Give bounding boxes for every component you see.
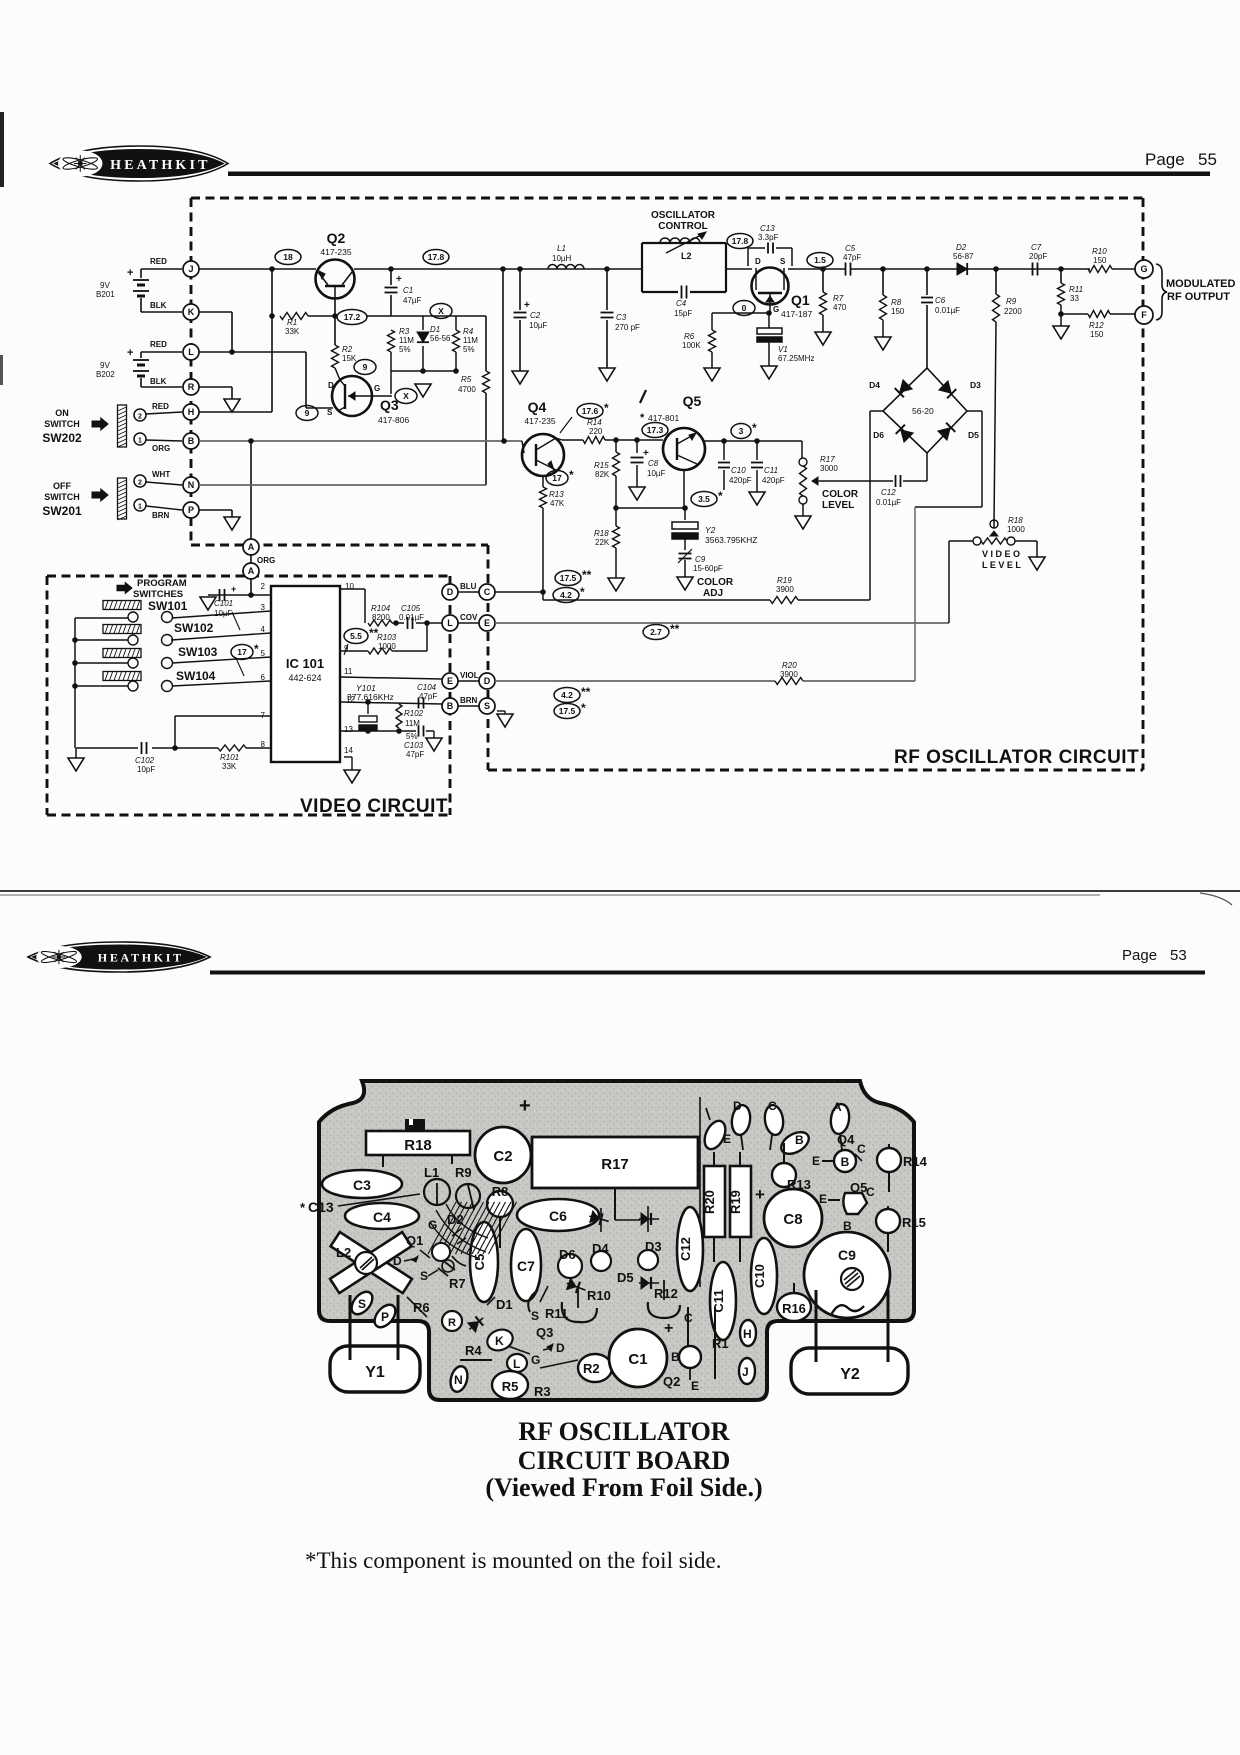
svg-text:+: + — [524, 300, 530, 311]
svg-text:11M: 11M — [463, 336, 478, 345]
svg-text:+: + — [755, 1185, 765, 1204]
svg-text:R104: R104 — [371, 604, 391, 613]
svg-text:RF OUTPUT: RF OUTPUT — [1167, 291, 1230, 303]
svg-text:D: D — [484, 676, 491, 686]
svg-text:15-60pF: 15-60pF — [693, 564, 723, 573]
svg-text:A: A — [248, 566, 255, 576]
svg-text:D5: D5 — [617, 1270, 634, 1285]
svg-text:D4: D4 — [869, 380, 880, 390]
svg-text:N: N — [454, 1373, 463, 1387]
svg-text:417-235: 417-235 — [524, 416, 555, 426]
svg-text:R1: R1 — [287, 318, 297, 327]
svg-text:C: C — [484, 587, 491, 597]
svg-text:Q2: Q2 — [663, 1374, 680, 1389]
svg-text:WHT: WHT — [152, 470, 170, 479]
svg-text:417-235: 417-235 — [320, 247, 351, 257]
svg-text:C2: C2 — [493, 1148, 512, 1165]
svg-text:C105: C105 — [401, 604, 421, 613]
svg-text:R5: R5 — [461, 375, 472, 384]
svg-text:5%: 5% — [463, 345, 475, 354]
svg-text:LEVEL: LEVEL — [822, 500, 854, 511]
svg-text:Page: Page — [1122, 947, 1157, 964]
svg-text:Page: Page — [1145, 150, 1185, 169]
svg-text:C102: C102 — [135, 756, 155, 765]
svg-text:D: D — [328, 381, 334, 390]
svg-text:R11: R11 — [545, 1306, 568, 1321]
svg-text:47µF: 47µF — [403, 296, 422, 305]
svg-text:H: H — [188, 407, 195, 417]
svg-text:3900: 3900 — [776, 585, 794, 594]
svg-text:R9: R9 — [1006, 297, 1017, 306]
svg-text:R14: R14 — [587, 418, 602, 427]
svg-text:R17: R17 — [601, 1156, 629, 1173]
svg-text:R18: R18 — [404, 1137, 432, 1154]
svg-text:R8: R8 — [891, 298, 902, 307]
svg-text:Q4: Q4 — [837, 1132, 855, 1147]
svg-text:R7: R7 — [833, 294, 844, 303]
svg-text:C13: C13 — [760, 224, 775, 233]
svg-text:22K: 22K — [595, 538, 610, 547]
svg-text:C1: C1 — [403, 286, 413, 295]
svg-text:RF OSCILLATOR: RF OSCILLATOR — [518, 1417, 729, 1446]
svg-text:V I D E O: V I D E O — [982, 549, 1020, 559]
svg-text:RED: RED — [150, 340, 167, 349]
svg-text:+: + — [127, 347, 133, 359]
svg-text:17.8: 17.8 — [732, 236, 749, 246]
svg-text:Q1: Q1 — [406, 1233, 423, 1248]
svg-text:9: 9 — [305, 408, 310, 418]
svg-text:C5: C5 — [845, 244, 856, 253]
svg-text:Q4: Q4 — [528, 399, 547, 415]
svg-text:ADJ: ADJ — [703, 588, 723, 599]
svg-text:CIRCUIT BOARD: CIRCUIT BOARD — [518, 1446, 731, 1475]
svg-text:2: 2 — [138, 414, 142, 421]
svg-text:R102: R102 — [404, 709, 424, 718]
svg-text:BLU: BLU — [460, 582, 477, 591]
svg-text:9: 9 — [363, 362, 368, 372]
svg-text:R10: R10 — [1092, 247, 1107, 256]
svg-text:17.5: 17.5 — [559, 706, 576, 716]
svg-text:MODULATED: MODULATED — [1166, 278, 1236, 290]
svg-text:S: S — [327, 408, 333, 417]
svg-text:E: E — [723, 1132, 731, 1146]
svg-text:**: ** — [581, 685, 591, 699]
svg-text:3: 3 — [739, 426, 744, 436]
svg-text:+: + — [127, 267, 133, 279]
svg-text:SWITCH: SWITCH — [44, 419, 80, 429]
svg-text:11: 11 — [344, 667, 353, 676]
svg-text:RED: RED — [150, 257, 167, 266]
svg-text:C2: C2 — [530, 311, 541, 320]
svg-text:B201: B201 — [96, 290, 115, 299]
svg-text:PROGRAM: PROGRAM — [137, 578, 187, 589]
svg-text:417-806: 417-806 — [378, 415, 409, 425]
svg-text:R19: R19 — [728, 1190, 743, 1214]
svg-text:Q5: Q5 — [683, 393, 702, 409]
svg-text:417-187: 417-187 — [781, 309, 812, 319]
svg-text:E: E — [819, 1192, 827, 1206]
svg-text:R18: R18 — [594, 529, 609, 538]
svg-text:5.5: 5.5 — [350, 631, 362, 641]
svg-text:J: J — [188, 264, 193, 274]
svg-text:BRN: BRN — [460, 696, 478, 705]
svg-text:82K: 82K — [595, 470, 610, 479]
svg-text:C: C — [866, 1185, 875, 1199]
svg-text:3.5: 3.5 — [698, 494, 710, 504]
svg-text:417-801: 417-801 — [648, 413, 679, 423]
svg-text:Y2: Y2 — [840, 1366, 860, 1383]
svg-text:*: * — [718, 489, 723, 503]
svg-text:4.2: 4.2 — [560, 590, 572, 600]
svg-text:56-87: 56-87 — [953, 252, 974, 261]
svg-text:3900: 3900 — [780, 670, 798, 679]
svg-text:2200: 2200 — [1004, 307, 1022, 316]
svg-text:420pF: 420pF — [729, 476, 752, 485]
svg-text:13: 13 — [344, 725, 353, 734]
svg-text:C7: C7 — [517, 1258, 535, 1274]
svg-text:*: * — [640, 412, 645, 424]
svg-text:17: 17 — [552, 473, 562, 483]
svg-text:BLK: BLK — [150, 377, 167, 386]
svg-text:BLK: BLK — [150, 301, 167, 310]
svg-text:1000: 1000 — [1007, 525, 1025, 534]
svg-text:D: D — [733, 1099, 742, 1113]
svg-text:*This component is mounted on: *This component is mounted on the foil s… — [305, 1548, 722, 1573]
svg-text:*: * — [581, 701, 586, 715]
svg-text:C8: C8 — [648, 459, 659, 468]
svg-text:C13: C13 — [308, 1199, 334, 1215]
svg-text:17: 17 — [237, 647, 247, 657]
svg-text:**: ** — [582, 568, 592, 582]
svg-text:47pF: 47pF — [419, 692, 437, 701]
svg-text:11M: 11M — [399, 336, 414, 345]
svg-text:33: 33 — [1070, 294, 1079, 303]
svg-text:Q2: Q2 — [327, 230, 346, 246]
svg-text:C12: C12 — [678, 1237, 693, 1261]
svg-text:VIOL: VIOL — [460, 671, 479, 680]
svg-text:A: A — [248, 542, 255, 552]
svg-text:R: R — [448, 1317, 456, 1329]
svg-text:C11: C11 — [764, 466, 778, 475]
svg-text:R17: R17 — [820, 455, 835, 464]
svg-text:R16: R16 — [782, 1301, 806, 1316]
svg-text:C3: C3 — [353, 1177, 371, 1193]
svg-text:10µH: 10µH — [552, 254, 572, 263]
svg-text:3000: 3000 — [820, 464, 838, 473]
svg-text:D3: D3 — [970, 380, 981, 390]
svg-text:20pF: 20pF — [1029, 252, 1047, 261]
svg-text:G: G — [428, 1218, 437, 1232]
svg-text:377.616KHz: 377.616KHz — [347, 692, 394, 702]
svg-text:B: B — [795, 1133, 804, 1147]
svg-text:C10: C10 — [731, 466, 746, 475]
svg-text:9V: 9V — [100, 361, 110, 370]
svg-text:C104: C104 — [417, 683, 437, 692]
svg-text:R8: R8 — [492, 1184, 509, 1199]
svg-text:*: * — [580, 585, 585, 599]
svg-text:*: * — [752, 421, 757, 435]
svg-text:G: G — [374, 384, 380, 393]
svg-text:D: D — [447, 587, 454, 597]
svg-text:B202: B202 — [96, 370, 115, 379]
svg-text:A: A — [833, 1100, 842, 1114]
svg-text:**: ** — [670, 622, 680, 636]
svg-text:9V: 9V — [100, 281, 110, 290]
svg-text:L2: L2 — [336, 1245, 351, 1260]
svg-text:H: H — [743, 1327, 752, 1341]
svg-text:18: 18 — [283, 252, 293, 262]
svg-text:D: D — [755, 257, 761, 266]
svg-text:3563.795KHZ: 3563.795KHZ — [705, 535, 757, 545]
svg-text:0.01µF: 0.01µF — [399, 613, 424, 622]
svg-text:L1: L1 — [557, 244, 566, 253]
svg-text:R2: R2 — [583, 1361, 600, 1376]
svg-text:SW104: SW104 — [176, 669, 216, 683]
svg-text:RED: RED — [152, 402, 169, 411]
svg-text:47pF: 47pF — [843, 253, 861, 262]
svg-text:L: L — [188, 347, 194, 357]
svg-text:56-56: 56-56 — [430, 334, 451, 343]
svg-text:+: + — [396, 274, 402, 285]
svg-text:X: X — [403, 391, 409, 401]
svg-text:R15: R15 — [594, 461, 609, 470]
svg-text:C12: C12 — [881, 488, 896, 497]
svg-text:D2: D2 — [447, 1212, 464, 1227]
svg-text:COLOR: COLOR — [822, 489, 859, 500]
svg-text:C1: C1 — [628, 1351, 647, 1368]
svg-text:HEATHKIT: HEATHKIT — [98, 951, 184, 965]
svg-text:F: F — [1141, 310, 1147, 320]
svg-text:C103: C103 — [404, 741, 424, 750]
svg-text:R101: R101 — [220, 753, 239, 762]
svg-text:4700: 4700 — [458, 385, 476, 394]
svg-text:2: 2 — [261, 582, 266, 591]
svg-text:0.01µF: 0.01µF — [935, 306, 960, 315]
svg-text:5: 5 — [261, 649, 266, 658]
svg-text:E: E — [812, 1154, 820, 1168]
svg-text:3: 3 — [261, 603, 266, 612]
svg-text:R6: R6 — [413, 1300, 430, 1315]
svg-text:R4: R4 — [463, 327, 474, 336]
svg-text:B: B — [671, 1350, 680, 1364]
svg-text:33K: 33K — [285, 327, 300, 336]
svg-text:C11: C11 — [711, 1289, 726, 1312]
svg-text:D4: D4 — [592, 1241, 609, 1256]
svg-text:420pF: 420pF — [762, 476, 785, 485]
svg-text:15pF: 15pF — [674, 309, 692, 318]
svg-text:47pF: 47pF — [406, 750, 424, 759]
svg-text:C10: C10 — [752, 1264, 767, 1288]
svg-text:14: 14 — [344, 746, 353, 755]
svg-text:C6: C6 — [935, 296, 946, 305]
svg-text:R3: R3 — [399, 327, 410, 336]
svg-text:*: * — [254, 642, 259, 656]
svg-text:Q3: Q3 — [536, 1325, 553, 1340]
svg-text:L E V E L: L E V E L — [982, 560, 1021, 570]
svg-text:COLOR: COLOR — [697, 577, 734, 588]
svg-text:+: + — [643, 448, 649, 459]
svg-text:1000: 1000 — [378, 642, 396, 651]
svg-text:D6: D6 — [559, 1247, 576, 1262]
svg-text:R11: R11 — [1069, 285, 1083, 294]
svg-text:1: 1 — [138, 504, 142, 511]
svg-text:D6: D6 — [873, 430, 884, 440]
svg-text:OSCILLATOR: OSCILLATOR — [651, 210, 716, 221]
svg-text:17.3: 17.3 — [647, 425, 664, 435]
svg-text:53: 53 — [1170, 947, 1187, 964]
svg-text:C9: C9 — [838, 1247, 856, 1263]
svg-text:5%: 5% — [399, 345, 411, 354]
svg-text:17.6: 17.6 — [582, 406, 599, 416]
svg-text:ORG: ORG — [152, 444, 170, 453]
svg-text:D: D — [556, 1341, 565, 1355]
svg-text:S: S — [484, 701, 490, 711]
svg-text:Y2: Y2 — [705, 525, 716, 535]
svg-text:C4: C4 — [676, 299, 687, 308]
svg-text:D3: D3 — [645, 1239, 662, 1254]
svg-text:G: G — [773, 305, 779, 314]
svg-text:150: 150 — [1090, 330, 1104, 339]
svg-text:G: G — [531, 1353, 540, 1367]
svg-text:3.3pF: 3.3pF — [758, 233, 779, 242]
svg-text:VIDEO CIRCUIT: VIDEO CIRCUIT — [300, 796, 448, 817]
svg-text:L: L — [513, 1357, 520, 1371]
svg-text:R9: R9 — [455, 1165, 472, 1180]
svg-text:R5: R5 — [502, 1379, 519, 1394]
svg-text:R3: R3 — [534, 1384, 551, 1399]
svg-text:S: S — [420, 1269, 428, 1283]
svg-text:SW103: SW103 — [178, 645, 218, 659]
svg-text:*: * — [569, 468, 574, 482]
svg-text:L: L — [447, 618, 453, 628]
svg-text:ORG: ORG — [257, 556, 275, 565]
svg-text:0.01µF: 0.01µF — [876, 498, 901, 507]
svg-text:R13: R13 — [549, 490, 564, 499]
svg-text:S: S — [780, 257, 786, 266]
svg-text:R12: R12 — [654, 1286, 678, 1301]
svg-text:X: X — [438, 306, 444, 316]
svg-text:5%: 5% — [406, 732, 418, 741]
svg-text:COV: COV — [460, 613, 478, 622]
svg-text:SW202: SW202 — [42, 431, 82, 445]
svg-text:R15: R15 — [902, 1215, 926, 1230]
svg-text:10pF: 10pF — [137, 765, 155, 774]
svg-text:33K: 33K — [222, 762, 237, 771]
svg-text:E: E — [447, 676, 453, 686]
svg-text:D5: D5 — [968, 430, 979, 440]
svg-text:+: + — [231, 584, 236, 594]
svg-text:R18: R18 — [1008, 516, 1023, 525]
svg-text:R20: R20 — [702, 1190, 717, 1214]
svg-text:HEATHKIT: HEATHKIT — [110, 158, 210, 173]
svg-text:17.2: 17.2 — [344, 312, 361, 322]
svg-text:R: R — [188, 382, 195, 392]
svg-text:270 pF: 270 pF — [615, 323, 640, 332]
svg-text:D1: D1 — [430, 325, 440, 334]
svg-text:N: N — [188, 480, 195, 490]
svg-text:B: B — [841, 1155, 850, 1169]
svg-text:(Viewed From Foil Side.): (Viewed From Foil Side.) — [485, 1473, 762, 1502]
svg-text:G: G — [1140, 264, 1147, 274]
svg-text:B: B — [447, 701, 454, 711]
svg-text:S: S — [358, 1297, 366, 1311]
svg-text:C: C — [768, 1099, 777, 1113]
svg-text:100K: 100K — [682, 341, 701, 350]
svg-text:SW201: SW201 — [42, 504, 82, 518]
svg-text:C101: C101 — [214, 599, 233, 608]
svg-text:R14: R14 — [903, 1154, 928, 1169]
svg-text:OFF: OFF — [53, 481, 71, 491]
svg-text:SW102: SW102 — [174, 621, 214, 635]
svg-text:10µF: 10µF — [647, 469, 666, 478]
svg-text:10µF: 10µF — [529, 321, 548, 330]
svg-text:2: 2 — [138, 480, 142, 487]
svg-text:V1: V1 — [778, 345, 788, 354]
svg-text:C: C — [857, 1142, 866, 1156]
svg-text:J: J — [742, 1365, 749, 1379]
svg-text:442-624: 442-624 — [288, 673, 321, 683]
svg-text:17.5: 17.5 — [560, 573, 577, 583]
svg-text:C4: C4 — [373, 1209, 391, 1225]
svg-text:1.5: 1.5 — [814, 255, 826, 265]
svg-text:17.8: 17.8 — [428, 252, 445, 262]
svg-text:56-20: 56-20 — [912, 406, 934, 416]
svg-text:Q1: Q1 — [791, 292, 810, 308]
svg-text:1: 1 — [138, 438, 142, 445]
svg-text:K: K — [495, 1334, 504, 1348]
svg-text:+: + — [519, 1095, 531, 1117]
svg-text:C8: C8 — [783, 1211, 802, 1228]
svg-text:CONTROL: CONTROL — [658, 221, 707, 232]
svg-text:220: 220 — [589, 427, 603, 436]
svg-text:C3: C3 — [616, 313, 627, 322]
svg-text:E: E — [691, 1379, 699, 1393]
svg-text:150: 150 — [1093, 256, 1107, 265]
svg-text:SWITCH: SWITCH — [44, 492, 80, 502]
svg-text:*: * — [604, 401, 609, 415]
svg-text:D2: D2 — [956, 243, 967, 252]
svg-text:67.25MHz: 67.25MHz — [778, 354, 814, 363]
svg-text:ON: ON — [55, 408, 69, 418]
svg-text:2.7: 2.7 — [650, 627, 662, 637]
svg-text:P: P — [381, 1310, 389, 1324]
svg-text:L1: L1 — [424, 1165, 439, 1180]
svg-text:15K: 15K — [342, 354, 357, 363]
svg-text:BRN: BRN — [152, 511, 170, 520]
svg-text:C6: C6 — [549, 1208, 567, 1224]
svg-text:**: ** — [369, 626, 379, 640]
svg-text:S: S — [531, 1309, 539, 1323]
svg-text:Y1: Y1 — [365, 1364, 385, 1381]
svg-text:D: D — [393, 1254, 402, 1268]
svg-text:150: 150 — [891, 307, 905, 316]
svg-text:P: P — [188, 505, 194, 515]
svg-text:R2: R2 — [342, 345, 353, 354]
svg-text:R6: R6 — [684, 332, 695, 341]
svg-text:B: B — [188, 436, 195, 446]
svg-text:L2: L2 — [681, 251, 692, 261]
svg-text:C9: C9 — [695, 555, 706, 564]
svg-text:47K: 47K — [550, 499, 565, 508]
svg-text:IC 101: IC 101 — [286, 656, 324, 671]
svg-text:R19: R19 — [777, 576, 792, 585]
svg-text:R7: R7 — [449, 1276, 466, 1291]
svg-text:C7: C7 — [1031, 243, 1042, 252]
svg-text:+: + — [664, 1320, 673, 1337]
svg-text:4.2: 4.2 — [561, 690, 573, 700]
svg-text:E: E — [484, 618, 490, 628]
svg-text:R10: R10 — [587, 1288, 611, 1303]
